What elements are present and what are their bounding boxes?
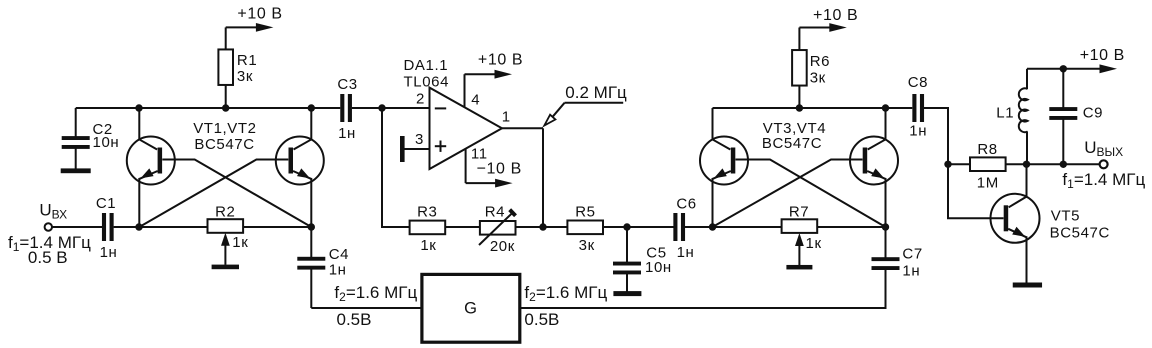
svg-text:3: 3 <box>415 131 424 148</box>
capacitor C3 <box>337 76 357 142</box>
svg-text:0.5В: 0.5В <box>524 310 559 329</box>
svg-text:f2=1.6 МГц: f2=1.6 МГц <box>334 283 417 304</box>
svg-text:VT1,VT2: VT1,VT2 <box>193 120 256 137</box>
capacitor C5 <box>613 227 672 292</box>
wire C8 node to R8 <box>948 163 970 165</box>
svg-text:+10 В: +10 В <box>237 6 282 23</box>
junction R1 on top rail <box>222 104 229 111</box>
wire C3 to op-amp pin 2 <box>352 107 430 109</box>
node B2 junction C4 / VT1 base / VT2 emitter <box>308 223 315 230</box>
svg-text:1н: 1н <box>909 122 927 139</box>
svg-text:1к: 1к <box>232 234 248 251</box>
svg-text:R8: R8 <box>977 141 997 158</box>
wire R4 to R5 <box>516 226 568 228</box>
node B4 junction C7 / VT3 base / VT4 emitter <box>882 223 889 230</box>
node pin2 junction <box>378 104 385 111</box>
svg-text:3к: 3к <box>579 237 595 254</box>
capacitor C8 <box>908 74 928 139</box>
resistor R5 <box>567 204 603 255</box>
output terminal Uvyx <box>1084 138 1123 168</box>
svg-text:+10 В: +10 В <box>813 7 858 24</box>
op-amp DA1.1 TL064 <box>404 57 503 169</box>
power +10 V arrow at R1 <box>226 6 283 32</box>
power +10 V arrow output stage <box>1080 47 1125 73</box>
node B1 junction C1 / VT2 base / VT1 emitter <box>135 223 142 230</box>
capacitor C4 <box>297 227 349 308</box>
capacitor C9 <box>1049 69 1103 165</box>
pin 11 power -10 V <box>466 146 522 188</box>
label f2=1.6 MHz 0.5 V at G input <box>334 283 417 329</box>
svg-text:3к: 3к <box>810 70 826 87</box>
transistor VT3 <box>700 108 748 227</box>
svg-text:R4: R4 <box>485 204 505 221</box>
power +10 V arrow at R6 <box>799 7 858 32</box>
svg-text:f1=1.4 МГц: f1=1.4 МГц <box>1062 170 1145 191</box>
wire node B1 to R2 <box>139 226 208 228</box>
ground below C5 <box>613 291 641 296</box>
svg-text:C9: C9 <box>1083 105 1103 122</box>
svg-text:C3: C3 <box>337 76 357 93</box>
svg-text:1к: 1к <box>806 235 822 252</box>
wire R8 to output terminal <box>1006 163 1101 165</box>
svg-text:R1: R1 <box>237 52 257 69</box>
svg-text:0.2 МГц: 0.2 МГц <box>565 83 627 102</box>
wire G output to C7 <box>520 269 886 308</box>
transistor VT2 <box>276 108 324 227</box>
wire feedback from pin2 node to R3 <box>382 108 410 227</box>
resistor R6 <box>792 28 830 109</box>
svg-text:+10 В: +10 В <box>478 52 523 69</box>
svg-text:L1: L1 <box>996 105 1014 122</box>
svg-text:C7: C7 <box>902 246 922 263</box>
capacitor C2 <box>62 108 120 169</box>
svg-text:20к: 20к <box>490 238 515 255</box>
wire VT1 base to node B2 <box>162 160 311 228</box>
input terminal Uvx <box>39 200 67 230</box>
label VT3,VT4 BC547C <box>762 120 826 152</box>
svg-text:1н: 1н <box>338 125 356 142</box>
transistor VT4 <box>850 108 898 227</box>
svg-text:G: G <box>464 300 477 318</box>
svg-text:−10 В: −10 В <box>477 161 522 178</box>
junction VT4 collector on top rail <box>882 104 889 111</box>
ground below C2 <box>61 168 91 173</box>
transistor VT5 <box>991 164 1110 282</box>
svg-text:C8: C8 <box>908 74 928 91</box>
junction op-amp output on R4-R5 wire <box>539 223 546 230</box>
junction R6 on top rail <box>796 104 803 111</box>
junction C9 bottom on output rail <box>1060 161 1067 168</box>
wire L1 top to +10 V <box>1027 68 1102 70</box>
label f2=1.6 MHz 0.5 V at G output <box>524 283 607 329</box>
generator G box <box>422 274 520 342</box>
wire top rail right block VT3 to C8 <box>713 107 913 109</box>
pin 3 input with common bar <box>400 131 430 162</box>
label f1=1.4 MHz 0.5 V input <box>8 233 91 267</box>
svg-text:10н: 10н <box>93 134 120 151</box>
pin 1 output wire <box>502 109 543 228</box>
junction VT1 collector on top rail <box>135 104 142 111</box>
resistor R2 trimmer <box>208 204 249 265</box>
resistor R4 variable <box>479 204 517 256</box>
svg-text:R7: R7 <box>789 204 809 221</box>
svg-text:C6: C6 <box>676 196 696 213</box>
svg-text:VT5: VT5 <box>1051 207 1080 224</box>
transistor VT1 <box>127 108 175 227</box>
ground below R7 <box>786 265 812 270</box>
ground below R2 <box>212 265 239 270</box>
node junction C8 / R8 / VT5 base <box>944 161 951 168</box>
svg-text:10н: 10н <box>645 259 672 276</box>
resistor R3 <box>410 203 446 254</box>
svg-text:2: 2 <box>416 91 425 108</box>
wire VT5 base to R8 node <box>948 164 1004 218</box>
svg-text:R6: R6 <box>810 53 830 70</box>
svg-text:+10 В: +10 В <box>1080 47 1125 64</box>
wire VT3 base to node B4 <box>736 160 886 228</box>
wire top rail left block C2 to C3 <box>76 107 341 109</box>
wire C8 right lead <box>924 107 948 109</box>
wire R5 to C6 <box>603 226 674 228</box>
inductor L1 <box>996 69 1027 165</box>
svg-text:R3: R3 <box>417 203 437 220</box>
wire C4 to G input <box>311 307 422 309</box>
svg-text:TL064: TL064 <box>404 74 450 91</box>
svg-text:1н: 1н <box>902 263 920 280</box>
capacitor C1 <box>52 195 139 261</box>
svg-text:4: 4 <box>471 91 480 108</box>
svg-text:1н: 1н <box>329 261 347 278</box>
svg-text:0.5В: 0.5В <box>337 310 372 329</box>
svg-text:1н: 1н <box>100 244 118 261</box>
svg-text:0.5 В: 0.5 В <box>28 248 68 267</box>
svg-text:1к: 1к <box>420 237 436 254</box>
junction C5 tap <box>623 223 630 230</box>
svg-text:1н: 1н <box>677 244 695 261</box>
capacitor C6 <box>673 196 696 262</box>
svg-text:R2: R2 <box>215 204 235 221</box>
junction VT2 collector on top rail <box>308 104 315 111</box>
svg-text:BC547C: BC547C <box>1050 225 1110 242</box>
svg-text:3к: 3к <box>237 68 253 85</box>
label VT1,VT2 BC547C <box>193 120 256 153</box>
pin 4 power +10 V <box>465 52 524 109</box>
wire VT2 base to node B1 <box>139 160 288 228</box>
svg-text:R5: R5 <box>575 204 595 221</box>
resistor R1 <box>218 27 257 108</box>
resistor R8 <box>970 141 1006 192</box>
junction C9 top on +10 V wire <box>1060 65 1067 72</box>
node junction L1 / VT5 collector <box>1023 161 1030 168</box>
node B3 junction C6 / VT4 base / VT3 emitter <box>709 223 716 230</box>
svg-text:BC547C: BC547C <box>194 136 254 153</box>
svg-text:1: 1 <box>502 109 511 126</box>
wire node B3 to R7 <box>713 226 783 228</box>
svg-text:C1: C1 <box>96 195 116 212</box>
wire C8 to output stage node <box>924 108 948 164</box>
wire C6 to node B3 <box>685 226 713 228</box>
svg-text:1М: 1М <box>977 175 999 192</box>
resistor R7 trimmer <box>782 204 822 266</box>
wire VT4 base to node B3 <box>713 160 863 228</box>
wire R3 to R4 <box>445 226 480 228</box>
svg-text:f2=1.6 МГц: f2=1.6 МГц <box>524 283 607 304</box>
ground below VT5 <box>1013 283 1042 288</box>
label 0.2 MHz with leader arrow <box>544 83 627 126</box>
svg-text:BC547C: BC547C <box>762 135 822 152</box>
capacitor C7 <box>872 227 923 308</box>
svg-text:DA1.1: DA1.1 <box>404 57 449 74</box>
wire R2 to node B2 <box>243 226 311 228</box>
wire R7 to node B4 <box>817 226 886 228</box>
